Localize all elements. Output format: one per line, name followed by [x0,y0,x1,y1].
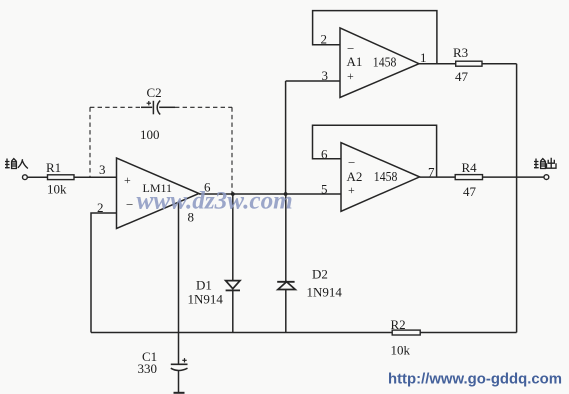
label 输出 [534,158,556,169]
svg-text:1458: 1458 [374,170,398,185]
wire pin8 vertical from LM11 to C1 [178,202,180,364]
wire LM11 output pin6 [199,193,341,195]
wire right vertical R3 to bottom rail [516,64,518,333]
svg-text:C2: C2 [147,85,162,100]
svg-text:47: 47 [455,69,469,84]
op-amp A2 triangle [341,143,420,212]
svg-text:3: 3 [322,68,329,83]
diode D1 branch wire top [232,194,234,281]
svg-text:100: 100 [140,127,160,142]
svg-text:1458: 1458 [373,56,397,71]
capacitor C1 symbol [171,358,188,370]
diode D1 symbol [226,281,240,289]
wire dashed top-left segment [90,106,141,108]
node junction D2/A1 [284,192,288,196]
svg-text:6: 6 [321,147,328,162]
resistor R3 [456,61,482,66]
plus mark of C2 [147,102,151,104]
svg-text:R3: R3 [453,45,468,60]
svg-text:1N914: 1N914 [188,292,224,307]
diode D2 branch wire top [285,194,287,282]
wire A1 feedback: pin2 lead [313,11,437,64]
wire vertical from pin6 node up to A1 pin3 [285,81,287,194]
wire C1 to ground [178,371,180,393]
svg-text:3: 3 [99,162,106,177]
wire pin2 of LM11 to left vertical [91,213,117,333]
wire D2 to bottom rail [285,290,287,333]
wire A1 output [419,63,456,65]
wire bottom rail left of R2 [91,332,392,334]
wire to A1 pin3 [286,80,340,82]
svg-text:R1: R1 [46,160,61,175]
resistor R1 [48,175,75,180]
svg-text:−: − [126,197,133,212]
wire dashed right vertical [231,107,233,193]
capacitor C2 dashed connection box [90,107,232,193]
svg-text:10k: 10k [391,343,411,358]
svg-text:2: 2 [97,200,104,215]
svg-text:www.dz3w.com: www.dz3w.com [137,188,293,215]
plus mark of C1 [182,359,186,361]
svg-text:http://www.go-gddq.com: http://www.go-gddq.com [388,372,562,388]
svg-text:+: + [348,183,355,197]
wire dashed left vertical [89,107,91,177]
node 输出 output terminal [544,175,549,180]
wire dashed top-right segment [175,106,232,108]
wire R1 to LM11 pin3 [74,176,117,178]
node junction D1 [231,192,235,196]
svg-text:47: 47 [463,184,477,199]
wire A2 output [420,176,456,178]
wire D1 to bottom rail [232,290,234,332]
svg-text:R2: R2 [391,317,406,332]
wire input to R1 [27,176,47,178]
svg-text:1N914: 1N914 [307,284,343,299]
wire R3 to right vertical [482,63,517,65]
svg-text:330: 330 [138,361,158,376]
svg-text:D2: D2 [312,267,328,282]
node 输入 input terminal [23,175,28,180]
svg-text:5: 5 [321,182,328,197]
svg-text:+: + [347,69,354,83]
capacitor C2 symbol [141,101,175,115]
wire bottom rail right of R2 [420,332,516,334]
svg-text:D1: D1 [196,278,212,293]
wire R4 to output terminal [483,176,544,178]
ground [174,392,185,394]
label 输入 [5,159,28,169]
op-amp A1 triangle [340,28,419,98]
svg-text:A2: A2 [347,169,363,184]
wire A2 feedback: pin6 lead [313,125,437,177]
op-amp U1 LM11 triangle [117,158,200,229]
resistor R2 [392,330,420,335]
svg-text:+: + [124,173,131,187]
svg-text:−: − [348,155,355,170]
svg-text:A1: A1 [347,54,363,69]
svg-text:10k: 10k [47,182,67,197]
svg-text:R4: R4 [462,160,478,175]
diode D2 symbol [277,281,294,283]
svg-text:7: 7 [428,165,435,180]
resistor R4 [455,175,482,180]
svg-text:2: 2 [321,32,328,47]
svg-text:1: 1 [420,50,427,65]
